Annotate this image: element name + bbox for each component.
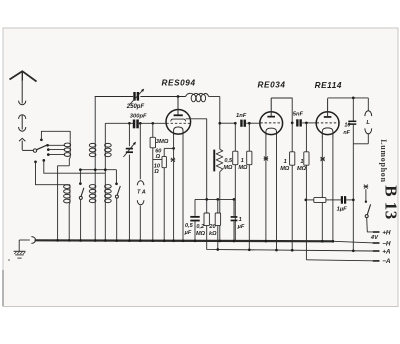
svg-text:20: 20 — [208, 224, 216, 230]
svg-text:1: 1 — [300, 159, 303, 165]
svg-text:nF: nF — [343, 130, 350, 136]
wire — [105, 122, 133, 124]
switch S1 contact c — [47, 153, 50, 156]
wire — [219, 97, 221, 150]
svg-text:MΩ: MΩ — [297, 166, 307, 172]
resistor R9 20k — [217, 199, 219, 213]
wire — [36, 162, 67, 185]
switch S1 arm — [37, 145, 48, 150]
speaker jack L — [365, 111, 372, 116]
capacitor C5 5nF — [296, 119, 298, 126]
antenna connector break 2 — [19, 127, 26, 131]
node — [79, 168, 82, 171]
svg-text:µF: µF — [184, 230, 192, 236]
wire — [246, 122, 260, 124]
svg-text:+A: +A — [382, 248, 391, 255]
wire — [80, 169, 116, 171]
tube U3 RE114 — [316, 112, 339, 135]
RF transformer secondary top coil — [105, 143, 112, 147]
wire — [163, 168, 165, 240]
x mark — [171, 158, 175, 162]
node — [177, 95, 180, 98]
terminal +A — [373, 250, 380, 252]
svg-text:MΩ: MΩ — [280, 166, 290, 172]
RF choke Dr — [191, 94, 196, 101]
svg-text:RES094: RES094 — [162, 79, 196, 88]
wire — [21, 115, 23, 130]
RF transformer primary bottom coil — [89, 185, 96, 189]
phono jack TA — [139, 123, 141, 179]
wire — [346, 199, 353, 201]
switch S1 stud contact e — [34, 160, 37, 163]
svg-text:250pF: 250pF — [126, 104, 145, 110]
svg-text:RE114: RE114 — [315, 81, 342, 90]
wire — [58, 166, 70, 241]
power switch S4 — [365, 189, 367, 201]
x mark — [264, 157, 268, 161]
wire — [95, 96, 134, 98]
wire — [302, 122, 316, 124]
svg-text:1µF: 1µF — [337, 207, 348, 213]
wire — [367, 98, 369, 111]
variable capacitor C1 250pF — [133, 92, 135, 101]
svg-text:−H: −H — [382, 240, 391, 247]
resistor R7 — [314, 198, 326, 203]
svg-text:0,5: 0,5 — [224, 158, 233, 164]
coil L2 — [67, 184, 70, 186]
wire — [94, 97, 96, 242]
ground connector — [19, 239, 30, 241]
svg-text:Ω: Ω — [153, 169, 159, 175]
wire — [220, 122, 236, 124]
svg-text:L: L — [366, 120, 370, 126]
resistor R3 0.5M — [234, 123, 236, 151]
svg-text:+H: +H — [382, 229, 391, 236]
resistor R5 1M — [291, 123, 293, 152]
terminal -H — [373, 242, 380, 244]
node — [304, 199, 307, 202]
U1 filament — [174, 127, 183, 135]
resistor R6 1M — [305, 123, 307, 152]
svg-text:10: 10 — [344, 122, 350, 128]
svg-text:3MΩ: 3MΩ — [156, 139, 169, 145]
+A junctions — [216, 248, 219, 251]
capacitor C8 0.5uF — [194, 199, 196, 216]
wire — [353, 143, 368, 145]
U2 filament — [266, 128, 277, 135]
wire — [164, 147, 173, 149]
svg-text:MΩ: MΩ — [238, 165, 248, 171]
wire — [186, 119, 207, 200]
wire — [44, 160, 106, 173]
svg-text:5nF: 5nF — [293, 111, 304, 117]
resistor R1 3M — [152, 123, 154, 137]
node — [128, 122, 131, 125]
terminal +H — [373, 231, 380, 233]
x mark — [321, 157, 325, 161]
U3 control grid — [317, 122, 339, 124]
svg-text:B 13: B 13 — [382, 185, 400, 220]
svg-text:4V: 4V — [370, 235, 379, 241]
svg-text:kΩ: kΩ — [209, 231, 217, 237]
svg-text:1: 1 — [284, 159, 287, 165]
antenna coil L1 — [69, 140, 71, 158]
U1 filament leads — [173, 134, 175, 240]
svg-text:µF: µF — [237, 224, 245, 230]
capacitor C9 1uF — [233, 199, 235, 216]
switch S3 — [115, 170, 117, 184]
svg-text:−A: −A — [382, 258, 391, 265]
node — [291, 122, 294, 125]
U2 anode — [270, 98, 272, 116]
U3 anode — [327, 98, 329, 116]
anode choke-resistor — [213, 150, 215, 172]
RF transformer secondary bottom coil — [105, 185, 112, 189]
U2 control grid — [260, 122, 282, 124]
U1 control grid — [166, 122, 190, 124]
speck — [8, 259, 10, 261]
resistor R4 1M — [248, 123, 250, 151]
capacitor C2 300pF — [133, 120, 136, 129]
ground bus — [35, 240, 334, 241]
switch S1 stud contact d — [40, 138, 43, 141]
RF transformer primary top coil — [89, 143, 96, 147]
svg-text:Ω: Ω — [155, 154, 161, 160]
wire — [140, 96, 185, 98]
switch S1 contact a — [46, 144, 49, 147]
switch S1 pivot — [33, 149, 36, 152]
svg-text:0,5: 0,5 — [185, 223, 194, 229]
bus junctions — [56, 239, 59, 242]
wire — [326, 199, 341, 201]
tube U2 RE034 — [260, 112, 283, 135]
resistor R2 10ohm — [162, 156, 166, 167]
wire — [104, 123, 106, 241]
svg-text:T A: T A — [137, 189, 146, 195]
svg-text:Lumophon: Lumophon — [379, 139, 388, 182]
U1 screen grid — [171, 119, 186, 121]
wire — [139, 122, 167, 124]
switch S1 contact b — [47, 148, 50, 151]
tube U1 RES094 — [166, 110, 191, 135]
U3 filament — [322, 128, 333, 137]
wire — [306, 199, 313, 201]
wire — [195, 198, 234, 200]
capacitor C6 10nF — [352, 98, 354, 121]
antenna lead-in wire — [21, 80, 23, 104]
switch S2 — [79, 182, 82, 185]
variable capacitor C3 — [128, 123, 130, 146]
capacitor C4 1nF — [240, 120, 242, 127]
wire — [352, 144, 354, 200]
U1 anode — [177, 97, 179, 115]
antenna connector break 1 — [19, 101, 26, 105]
wire — [219, 172, 221, 240]
x mark — [364, 185, 368, 189]
svg-text:MΩ: MΩ — [196, 231, 206, 237]
svg-text:1nF: 1nF — [236, 113, 247, 119]
wire — [21, 141, 23, 150]
capacitor C7 1uF — [341, 196, 343, 204]
svg-text:1: 1 — [241, 158, 244, 164]
terminal -A — [306, 260, 372, 261]
svg-text:RE034: RE034 — [258, 81, 286, 90]
switch S1 stud contact f — [42, 159, 45, 162]
U2 filament leads — [265, 135, 267, 240]
svg-text:0,2: 0,2 — [196, 224, 205, 230]
U3 filament leads — [321, 137, 323, 240]
wire — [153, 148, 164, 160]
wire — [271, 98, 292, 123]
resistor R8 0.2M — [206, 199, 208, 213]
wire — [328, 97, 369, 99]
wire — [41, 131, 70, 140]
svg-text:300pF: 300pF — [130, 114, 147, 120]
ground symbol — [18, 240, 20, 251]
svg-text:MΩ: MΩ — [223, 165, 233, 171]
antenna — [10, 71, 37, 81]
svg-text:1: 1 — [239, 217, 242, 223]
